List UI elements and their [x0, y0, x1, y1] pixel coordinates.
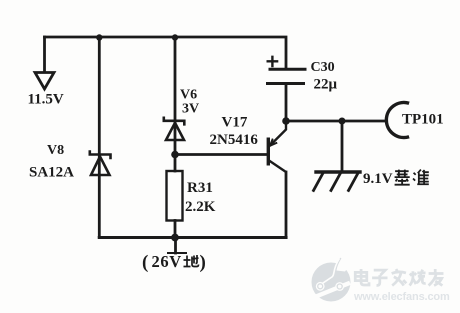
- svg-text:www.elecfans.com: www.elecfans.com: [353, 291, 450, 303]
- svg-text:C30: C30: [311, 60, 335, 75]
- svg-text:SA12A: SA12A: [29, 165, 74, 181]
- svg-text:2N5416: 2N5416: [210, 132, 259, 148]
- svg-text:V8: V8: [47, 143, 64, 158]
- svg-text:V17: V17: [222, 115, 248, 131]
- svg-text:11.5V: 11.5V: [28, 92, 64, 108]
- svg-text:3V: 3V: [182, 102, 199, 117]
- svg-text:V6: V6: [180, 88, 197, 103]
- svg-text:22μ: 22μ: [314, 77, 338, 93]
- svg-text:2.2K: 2.2K: [185, 199, 216, 215]
- svg-text:R31: R31: [187, 180, 213, 196]
- svg-text:9.1V: 9.1V: [363, 171, 393, 187]
- svg-text:(: (: [142, 252, 148, 273]
- svg-text:TP101: TP101: [402, 112, 444, 128]
- svg-text:): ): [200, 252, 206, 273]
- svg-text:26V: 26V: [152, 252, 182, 271]
